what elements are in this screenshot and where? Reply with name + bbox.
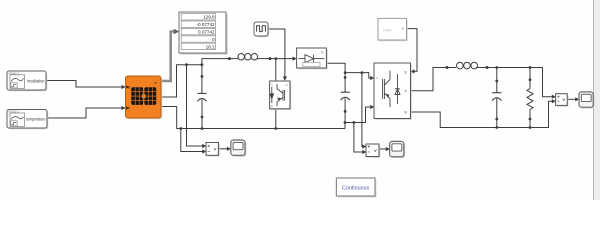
svg-text:129.9: 129.9: [203, 15, 215, 20]
svg-text:Group 1: Group 1: [9, 71, 20, 75]
svg-text:Continuous: Continuous: [342, 185, 370, 191]
svg-text:m: m: [321, 50, 324, 54]
svg-text:18.2: 18.2: [206, 44, 215, 49]
svg-text:E: E: [271, 104, 273, 108]
svg-text:-: -: [376, 106, 377, 110]
svg-text:+: +: [376, 76, 378, 80]
svg-text:m: m: [154, 81, 157, 85]
svg-text:irradiation: irradiation: [27, 78, 45, 83]
svg-text:T: T: [128, 107, 130, 111]
svg-text:-0.07742: -0.07742: [196, 22, 215, 27]
svg-text:PWM: PWM: [383, 29, 391, 33]
svg-text:0.07742: 0.07742: [198, 30, 215, 35]
svg-text:Group 1: Group 1: [9, 110, 20, 114]
svg-text:0: 0: [212, 37, 215, 42]
svg-text:temperature: temperature: [26, 116, 46, 121]
svg-text:g: g: [405, 70, 407, 74]
